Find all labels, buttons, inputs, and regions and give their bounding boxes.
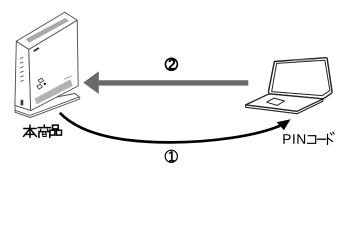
router right face	[29, 20, 78, 110]
text 本商品	[24, 125, 62, 137]
arrowhead of curved arrow	[277, 119, 291, 130]
kanji 品	[50, 125, 62, 135]
button dot	[44, 83, 46, 85]
katakana ー	[318, 138, 326, 140]
touchpad	[267, 98, 285, 105]
gray arrow (2)	[83, 71, 248, 94]
port on left face	[21, 100, 24, 106]
lid top edge gray hinge strip	[294, 59, 316, 60]
logo dash on right face	[34, 48, 38, 51]
label square 1	[38, 78, 43, 83]
laptop lid outer	[268, 58, 332, 99]
router top face	[16, 12, 77, 49]
laptop base top	[246, 94, 323, 112]
side vent stripe	[35, 79, 73, 104]
katakana コ	[308, 136, 316, 144]
slot line above stripe	[64, 76, 71, 79]
katakana ド	[327, 134, 329, 144]
curved arrow (1)	[60, 113, 280, 143]
kanji 商	[38, 125, 50, 137]
laptop	[246, 58, 332, 114]
laptop base thickness	[246, 99, 323, 114]
top vent	[26, 18, 69, 43]
katakana コード	[308, 132, 335, 144]
router base stand	[15, 94, 80, 118]
label circled 2	[165, 58, 177, 70]
kanji 本	[24, 125, 37, 137]
label circled 1	[165, 150, 177, 162]
LED tick marks	[20, 57, 23, 81]
label square 2	[37, 84, 43, 89]
router left face	[15, 41, 31, 110]
laptop screen inner bezel	[272, 60, 330, 95]
text PIN	[283, 134, 305, 144]
